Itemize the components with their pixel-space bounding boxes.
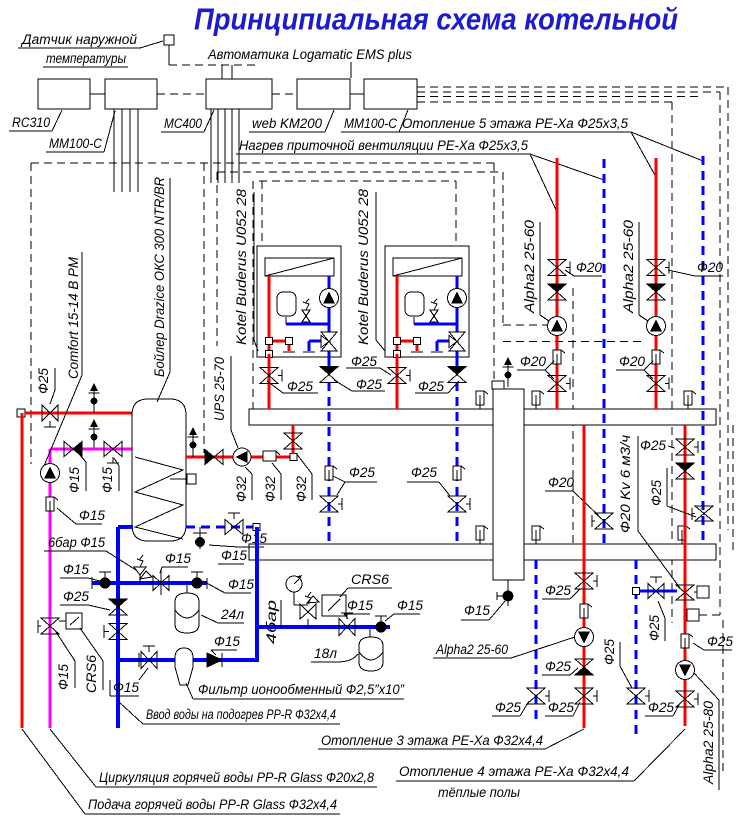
supply manifold left part: [249, 409, 493, 425]
thermometer pocket return b2: [453, 466, 465, 480]
svg-text:Ф25: Ф25: [356, 377, 382, 392]
svg-text:Ф20 Kv 6 м3/ч: Ф20 Kv 6 м3/ч: [618, 435, 633, 533]
check valve floor4: [676, 463, 694, 479]
bottom valve floor3 return: [527, 688, 549, 704]
svg-text:Alpha2 25-60: Alpha2 25-60: [522, 219, 537, 314]
bus wires between controllers: [90, 93, 105, 95]
expansion vessel 18l: [369, 627, 371, 638]
svg-text:Ф25: Ф25: [647, 615, 662, 641]
svg-text:Ф32: Ф32: [294, 476, 309, 502]
valve Ф15 on circulation: [104, 442, 122, 464]
controller RC310: [38, 79, 90, 109]
DHW tank Drazice: [132, 399, 186, 541]
feed water stub: [118, 658, 259, 662]
hydraulic separator: [493, 389, 524, 580]
svg-text:Ф15: Ф15: [241, 531, 267, 546]
svg-text:Бойлер Drazice ОКС 300 NTR/BR: Бойлер Drazice ОКС 300 NTR/BR: [152, 177, 167, 377]
svg-text:Ф25: Ф25: [707, 634, 733, 649]
svg-text:температуры: температуры: [46, 51, 126, 66]
actuator square: [697, 586, 709, 598]
svg-text:Ф32: Ф32: [234, 476, 249, 502]
balancing valve on vent return Ф20: [592, 513, 613, 529]
valve Ф32 loading: [284, 433, 302, 449]
check valve circuit1: [548, 284, 566, 300]
wire drop x720: [719, 92, 721, 615]
svg-text:Ф15: Ф15: [100, 467, 115, 493]
svg-text:Ф15: Ф15: [63, 562, 89, 577]
air vent on red pipe: [89, 383, 100, 413]
valve Ф32 cold water: [225, 513, 243, 535]
check valve floor3: [575, 659, 593, 675]
vent heating supply pipe red: [556, 158, 559, 409]
svg-text:RC310: RC310: [12, 115, 50, 130]
boiler1 pump: [320, 289, 339, 308]
svg-text:Ф20: Ф20: [548, 475, 574, 490]
cold water riser A: [116, 527, 120, 728]
check valve loading: [205, 450, 214, 465]
boiler1 return check valve: [320, 367, 338, 383]
wire drop x494 to separator vent: [493, 163, 495, 381]
svg-text:Ф15: Ф15: [214, 634, 240, 649]
heating circuit control wires right: [417, 87, 728, 102]
pump Alpha2 floor3: [575, 628, 594, 647]
boiler2 pump: [448, 289, 467, 308]
svg-text:Ф20: Ф20: [576, 260, 602, 275]
ball valve makeup: [375, 616, 387, 633]
separator drain valve: [507, 580, 509, 590]
pump UPS 25-70: [233, 448, 251, 466]
wire drop x503 to pump1: [502, 172, 504, 325]
ion exchange filter: [175, 648, 193, 685]
bus horizontal y163: [31, 162, 494, 164]
boiler2 supply pipe: [396, 276, 399, 354]
svg-text:Автоматика Logamatic EMS plus: Автоматика Logamatic EMS plus: [207, 47, 412, 62]
wire to pump connector: [699, 614, 720, 616]
svg-text:18л: 18л: [314, 646, 337, 661]
svg-text:Ф25: Ф25: [602, 639, 617, 665]
svg-text:Датчик наружной: Датчик наружной: [20, 32, 138, 47]
bus horizontal y172: [217, 171, 503, 173]
svg-text:web KM200: web KM200: [252, 116, 322, 131]
tank loading pipe red UPS: [186, 456, 293, 459]
DHW circulation pipe magenta: [50, 448, 132, 451]
svg-text:6бар Ф15: 6бар Ф15: [48, 535, 105, 550]
boiler1 internal blue pipe: [286, 322, 329, 325]
wire sensor to MC400: [168, 45, 170, 65]
node square on floor4 return: [633, 588, 640, 595]
svg-text:UPS 25-70: UPS 25-70: [212, 357, 227, 421]
valve floor3 top: [575, 573, 597, 589]
svg-text:Comfort 15-14 В РМ: Comfort 15-14 В РМ: [66, 256, 81, 379]
thermometer pocket circuit1: [553, 350, 565, 364]
svg-text:Ф25: Ф25: [36, 368, 51, 394]
shutoff valve circuit1: [548, 376, 570, 392]
tank coil: [135, 457, 183, 539]
svg-text:Ф25: Ф25: [548, 700, 574, 715]
check valve on circulation: [64, 442, 73, 457]
valve return b2 Ф25: [448, 496, 470, 512]
valve circuit2: [647, 260, 669, 276]
svg-text:Ф15: Ф15: [79, 508, 105, 523]
separator air vent: [492, 381, 504, 389]
svg-text:CRS6: CRS6: [84, 654, 99, 693]
wires below MM100-C: [114, 109, 138, 192]
check valve feed: [207, 653, 222, 667]
tank drain ball: [193, 527, 207, 549]
air vent on magenta pipe: [89, 419, 100, 449]
svg-text:CRS6: CRS6: [351, 572, 390, 587]
wire drop boiler1: [261, 181, 263, 246]
svg-text:Отопление 3 этажа PE-Xa Ф32x4,: Отопление 3 этажа PE-Xa Ф32x4,4: [321, 733, 543, 748]
makeup branch: [257, 625, 390, 629]
svg-text:Ввод воды на подогрев PP-R Ф32: Ввод воды на подогрев PP-R Ф32x4,4: [146, 707, 336, 722]
svg-text:Ф15: Ф15: [347, 598, 373, 613]
valve on floor5 return Ф25: [692, 506, 713, 521]
wire drop left enclosure: [30, 163, 32, 464]
thermometer pocket circulation: [46, 497, 58, 511]
floor5 return pipe blue dashed: [702, 156, 705, 544]
pump Alpha2 circuit1: [548, 317, 567, 336]
boiler2 supply shutoff valve Ф25: [396, 354, 399, 409]
svg-text:Ф25: Ф25: [411, 465, 437, 480]
boiler2 internal blue pipe: [414, 322, 457, 325]
svg-text:Ф15: Ф15: [228, 577, 254, 592]
svg-text:Ф25: Ф25: [545, 659, 571, 674]
svg-text:Отопление 5 этажа PE-Xa Ф25x3,: Отопление 5 этажа PE-Xa Ф25x3,5: [402, 116, 628, 131]
makeup relief valve 4bar: [300, 592, 319, 627]
svg-text:Ф25: Ф25: [545, 583, 571, 598]
svg-text:Ф25: Ф25: [63, 589, 89, 604]
pump Alpha2 circuit2: [647, 317, 666, 336]
check valve riser A: [109, 599, 127, 615]
controller MC400: [206, 79, 272, 109]
outdoor temperature sensor: [164, 35, 174, 45]
svg-text:Ф25: Ф25: [287, 379, 313, 394]
return manifold left part: [249, 544, 493, 560]
wire drop boiler2: [455, 181, 457, 246]
controller MM100-C: [105, 79, 157, 109]
valve Ф25 on DHW supply: [42, 405, 58, 427]
svg-text:MM100-C: MM100-C: [344, 116, 397, 131]
circulation pump: [41, 464, 60, 483]
svg-text:Ф15: Ф15: [464, 603, 490, 618]
thermometer pocket floor4: [681, 634, 693, 648]
wire to pump2: [503, 341, 646, 343]
svg-text:Ф15: Ф15: [67, 467, 82, 493]
svg-text:Alpha2 25-80: Alpha2 25-80: [701, 701, 716, 786]
boiler2 3-way valve: [449, 332, 465, 351]
boiler2 return check valve: [448, 367, 466, 383]
svg-text:Ф25: Ф25: [495, 700, 521, 715]
floor4 supply pipe red: [684, 425, 687, 726]
svg-text:Принципиальная схема котельной: Принципиальная схема котельной: [194, 2, 678, 37]
svg-text:24л: 24л: [220, 607, 244, 622]
supply manifold right part: [524, 409, 716, 425]
boiler2 safety valve: [430, 310, 438, 322]
check valve circuit2: [647, 284, 665, 300]
boiler2 heat exchanger: [393, 258, 462, 276]
svg-text:Фильтр ионообменный Ф2,5”x10”: Фильтр ионообменный Ф2,5”x10”: [198, 682, 404, 697]
svg-text:Циркуляция горячей воды PP-R G: Циркуляция горячей воды PP-R Glass Ф20x2…: [99, 770, 374, 785]
svg-text:Ф15: Ф15: [113, 680, 139, 695]
svg-text:тёплые полы: тёплые полы: [438, 785, 520, 800]
bus horizontal y181: [259, 180, 456, 182]
svg-text:MM100-C: MM100-C: [49, 136, 102, 151]
wire segment x723 low: [722, 620, 724, 775]
wire drop x728: [727, 87, 729, 530]
bottom valve floor3 supply: [575, 688, 597, 704]
CRS6 controller box: [322, 595, 346, 616]
svg-text:Нагрев приточной вентиляции PE: Нагрев приточной вентиляции PE-Xa Ф25x3,…: [239, 138, 528, 153]
boiler1 supply shutoff valve Ф25: [268, 354, 271, 409]
svg-text:Ф15: Ф15: [165, 551, 191, 566]
module web KM200: [297, 79, 350, 109]
boiler 1 Kotel Buderus U052: [257, 246, 341, 544]
return manifold right part: [524, 544, 716, 560]
svg-text:Ф20: Ф20: [619, 354, 645, 369]
wire connector square: [687, 609, 699, 621]
DHW pipe red supply top: [17, 409, 25, 417]
valve return b1 Ф25: [320, 496, 342, 512]
thermometer pocket floor3: [580, 604, 592, 618]
floor3 return pipe blue dashed: [535, 560, 538, 724]
floor3 supply pipe red: [583, 425, 586, 728]
wire drop x217: [216, 172, 218, 346]
pump Alpha2 25-80 floor4: [676, 661, 695, 680]
cold water dashed pipe from tank: [186, 526, 253, 529]
svg-text:Alpha2 25-60: Alpha2 25-60: [435, 642, 508, 657]
controller MM100-C 2: [364, 79, 417, 109]
valve on magenta bottom: [38, 618, 59, 634]
boiler2 expansion vessel: [405, 292, 424, 316]
svg-text:Kotel Buderus U052 28: Kotel Buderus U052 28: [234, 188, 249, 345]
thermometer pocket return b1: [325, 466, 337, 480]
svg-text:Ф25: Ф25: [649, 480, 664, 506]
feed line to riser B: [222, 658, 259, 662]
svg-text:Alpha2 25-60: Alpha2 25-60: [621, 219, 636, 314]
wire segment x733: [732, 425, 734, 555]
svg-text:Ф20: Ф20: [697, 260, 723, 275]
boiler1 casing: [257, 246, 341, 357]
bottom valve floor4 return: [627, 688, 649, 704]
ball valve Ф15: [99, 572, 111, 589]
wire drop x672: [671, 102, 673, 623]
safety relief valve 6bar: [134, 555, 152, 583]
svg-text:Ф25: Ф25: [648, 700, 674, 715]
floor4 return pipe blue dashed: [635, 560, 638, 736]
wires below MC400: [211, 109, 239, 183]
boiler1 supply pipe: [268, 276, 271, 354]
bottom valve floor4 supply: [676, 691, 698, 707]
svg-text:Ф20: Ф20: [520, 354, 546, 369]
treated water riser B: [255, 527, 259, 661]
valve Ф15 makeup: [339, 613, 355, 636]
boiler1 expansion vessel: [277, 292, 296, 316]
tank side connector: [170, 478, 187, 480]
wire drop x204: [203, 163, 205, 453]
valve floor4 top Ф25: [676, 439, 698, 455]
svg-text:Ф15: Ф15: [397, 598, 423, 613]
expansion vessel 24l: [186, 583, 188, 594]
boiler2 return dashed pipe: [456, 382, 459, 544]
svg-text:Подача горячей воды PP-R Glass: Подача горячей воды PP-R Glass Ф32x4,4: [88, 797, 337, 812]
svg-text:Ф32: Ф32: [263, 476, 278, 502]
boiler1 return pipe: [327, 276, 330, 368]
DHW riser red: [21, 413, 24, 728]
thermometer pockets on manifolds: [476, 391, 696, 544]
wire drop x253: [252, 181, 254, 420]
vent heating return pipe blue dashed: [603, 159, 606, 544]
node square loading: [290, 454, 297, 461]
floor5 supply pipe red: [655, 158, 658, 409]
boiler 2 Kotel Buderus U052: [385, 246, 469, 544]
wire drop x573: [572, 288, 574, 544]
boiler1 safety valve: [302, 310, 310, 322]
valve circuit1: [548, 260, 570, 276]
valve Ф15 feed: [141, 646, 157, 669]
svg-text:Ф15: Ф15: [221, 548, 247, 563]
svg-text:Ф25: Ф25: [640, 438, 666, 453]
3-way mixing valve floor4: [676, 585, 697, 600]
mixing branch blue: [639, 590, 677, 593]
valve Ф15 safety line: [153, 571, 169, 595]
svg-text:Kotel Buderus U052 28: Kotel Buderus U052 28: [356, 188, 371, 345]
svg-text:4бар: 4бар: [264, 599, 279, 644]
ball valve 2: [191, 572, 203, 589]
shutoff valve circuit2: [647, 376, 669, 392]
svg-text:Ф25: Ф25: [351, 354, 377, 369]
svg-text:Ф25: Ф25: [418, 379, 444, 394]
boiler1 heat exchanger: [265, 258, 334, 276]
air vent on loading pipe: [188, 427, 199, 457]
safety group line: [92, 581, 207, 585]
boiler1 return dashed pipe: [328, 382, 331, 544]
svg-text:MC400: MC400: [164, 116, 202, 131]
CRS6 sensor box magenta: [66, 613, 82, 629]
node square cold water: [253, 524, 260, 531]
svg-text:Ф25: Ф25: [349, 465, 375, 480]
boiler2 casing: [385, 246, 469, 357]
svg-text:Ф15: Ф15: [56, 664, 71, 690]
boiler2 return pipe: [455, 276, 458, 368]
thermometer pocket circuit2: [652, 350, 664, 364]
flow meter on loading: [263, 451, 276, 461]
boiler1 3-way valve: [321, 332, 337, 351]
pressure gauge: [286, 575, 308, 605]
loading pipe up to manifold: [292, 425, 295, 454]
valve riser A: [104, 624, 127, 640]
valve on mixing branch: [648, 577, 664, 599]
svg-text:Отопление 4 этажа PE-Xa Ф32x4,: Отопление 4 этажа PE-Xa Ф32x4,4: [399, 764, 629, 779]
